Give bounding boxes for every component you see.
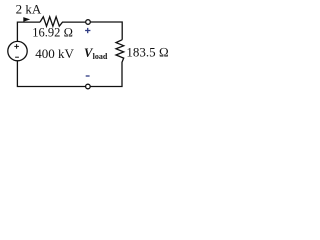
svg-text:load: load [93,52,108,61]
svg-text:16.92 Ω: 16.92 Ω [32,26,73,40]
svg-text:183.5 Ω: 183.5 Ω [126,44,168,59]
svg-text:2 kA: 2 kA [16,2,42,17]
svg-text:400 kV: 400 kV [35,46,74,61]
